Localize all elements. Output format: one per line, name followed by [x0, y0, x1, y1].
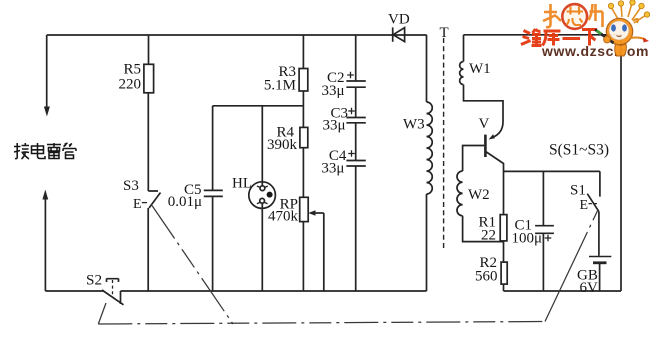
svg-text:470k: 470k — [268, 209, 299, 225]
mechanical linkage bottom dash-dot — [98, 322, 545, 325]
svg-text:6V: 6V — [580, 280, 599, 296]
svg-text:VD: VD — [388, 12, 410, 28]
svg-text:HL: HL — [232, 176, 252, 192]
transistor V base wire — [463, 146, 485, 172]
terminal arrow down (to detonator) — [44, 35, 50, 117]
resistor R3 — [299, 69, 308, 92]
label R1 — [478, 215, 496, 244]
wire C5 branch — [212, 106, 214, 291]
mechanical linkage S1 diagonal — [545, 211, 598, 322]
wire bottom right rail — [504, 290, 622, 292]
switch S3 — [148, 191, 160, 291]
svg-text:390k: 390k — [267, 137, 298, 153]
svg-text:5.1M: 5.1M — [264, 78, 296, 94]
label S1 — [570, 183, 588, 214]
svg-text:E: E — [580, 198, 589, 213]
watermark 片 — [589, 4, 603, 27]
switch S1 blade — [587, 194, 598, 212]
label R2 — [475, 255, 498, 285]
switch S2 contact — [107, 279, 119, 298]
wire R3 to R4 — [302, 91, 304, 127]
wire R1 to R2 — [503, 241, 505, 262]
svg-text:560: 560 — [475, 269, 498, 285]
svg-text:E: E — [133, 197, 142, 212]
label C2 — [321, 70, 344, 99]
svg-text:V: V — [479, 116, 490, 132]
winding W1 — [460, 35, 503, 122]
svg-text:S3: S3 — [123, 178, 139, 194]
winding W2 — [457, 171, 504, 242]
svg-text:220: 220 — [119, 77, 142, 93]
capacitor C1 — [535, 226, 554, 234]
wire RP bottom — [302, 222, 304, 291]
label C5 — [168, 182, 202, 210]
svg-text:33μ: 33μ — [321, 83, 344, 99]
watermark logo 找芯片 — [543, 4, 561, 27]
svg-text:0.01μ: 0.01μ — [168, 194, 202, 210]
switch S1 top wire — [599, 171, 601, 196]
svg-text:www.dzsc.com: www.dzsc.com — [541, 43, 649, 59]
C1 polarity plus — [545, 235, 552, 242]
svg-text:W3: W3 — [403, 117, 425, 133]
svg-text:T: T — [440, 25, 449, 41]
wire mid right horizontal — [504, 170, 600, 172]
svg-text:S(S1~S3): S(S1~S3) — [549, 142, 609, 159]
wire R5 branch top — [148, 35, 150, 64]
capacitor C5 — [204, 190, 223, 196]
svg-text:33μ: 33μ — [321, 161, 344, 177]
wire S1 to battery — [598, 211, 600, 256]
svg-text:33μ: 33μ — [322, 118, 345, 134]
transistor V collector wire — [486, 152, 503, 215]
label GB — [577, 268, 598, 297]
wire R3 branch top — [302, 35, 304, 69]
svg-text:W1: W1 — [469, 61, 491, 77]
transistor V base bar — [484, 135, 487, 157]
wire capacitor bank branch — [355, 35, 357, 291]
label C3 — [322, 106, 348, 134]
wire R5 to S3 — [147, 93, 149, 191]
label S3 — [123, 178, 142, 212]
wire R2 bottom — [503, 284, 505, 291]
label C4 — [321, 148, 347, 177]
wire top left rail — [47, 34, 427, 36]
capacitor C2 — [346, 81, 365, 87]
wire bottom mid rail — [121, 290, 427, 292]
potentiometer RP — [300, 197, 309, 221]
label 接电雷管 (hand-drawn glyphs) — [14, 143, 76, 159]
winding W3 — [427, 35, 433, 291]
wire right edge — [620, 35, 622, 291]
S1 E dashes — [589, 203, 598, 205]
C2 polarity plus — [347, 72, 354, 79]
RP wiper arrow — [308, 210, 324, 291]
svg-text:100μ: 100μ — [512, 231, 543, 247]
transformer T core (dashed) — [443, 38, 445, 250]
diode VD — [393, 27, 405, 41]
label C1 — [512, 218, 543, 247]
C4 polarity plus — [348, 150, 355, 157]
label RP — [268, 197, 299, 225]
svg-text:W2: W2 — [468, 187, 490, 203]
capacitor C3 — [346, 118, 365, 123]
label R5 — [119, 62, 142, 93]
wire bottom left rail — [45, 290, 103, 292]
wire HL branch — [261, 106, 263, 291]
terminal arrow up (to detonator) — [42, 190, 48, 292]
svg-text:S1: S1 — [570, 183, 586, 199]
resistor R5 — [144, 64, 154, 93]
watermark red ring with 芯 — [562, 4, 587, 29]
watermark 维库一下 — [521, 29, 597, 46]
label R4 — [267, 125, 298, 154]
mechanical linkage S2 slope — [98, 303, 106, 324]
wire top right rail — [464, 34, 622, 36]
svg-text:R5: R5 — [123, 62, 141, 78]
switch S2 blade — [102, 290, 124, 305]
transistor V emitter arrow — [489, 122, 503, 140]
wire mid horizontal — [213, 105, 304, 107]
mechanical linkage S3 diagonal — [152, 206, 233, 325]
resistor R4 — [300, 127, 308, 147]
watermark mascot — [595, 0, 650, 56]
resistor R1 — [500, 215, 507, 241]
svg-text:S2: S2 — [86, 272, 102, 289]
wire R4 to RP — [302, 148, 304, 198]
resistor R2 — [501, 262, 507, 284]
label R3 — [264, 64, 296, 94]
wire C1 branch — [542, 171, 544, 291]
battery GB — [589, 257, 611, 292]
C3 polarity plus — [348, 108, 355, 115]
svg-text:22: 22 — [481, 228, 496, 244]
S3 E dash — [142, 202, 147, 204]
lamp HL — [249, 182, 276, 209]
capacitor C4 — [346, 161, 365, 167]
